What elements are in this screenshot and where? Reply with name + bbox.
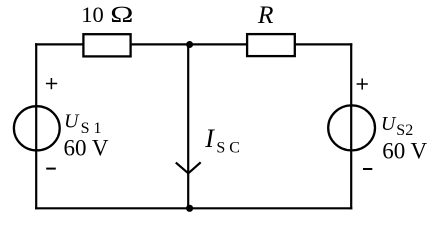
polarity plus right	[357, 83, 368, 85]
svg-text:10: 10	[81, 2, 104, 27]
wire top	[35, 43, 352, 45]
wire bottom	[35, 207, 352, 209]
resistor R body	[247, 34, 295, 56]
voltage source US1 circle	[14, 106, 60, 150]
polarity minus left	[46, 168, 56, 170]
svg-text:60 V: 60 V	[382, 139, 427, 164]
node junction dot bottom	[186, 205, 193, 212]
resistor 10 Ohm body	[83, 34, 130, 56]
current arrow head ISC	[176, 162, 201, 173]
svg-text:U: U	[64, 111, 80, 133]
polarity minus right	[363, 168, 372, 170]
svg-text:60 V: 60 V	[64, 136, 109, 161]
svg-text:S2: S2	[396, 122, 413, 139]
svg-text:S 1: S 1	[81, 120, 102, 137]
voltage source US2 circle	[328, 105, 375, 150]
node junction dot top	[186, 41, 193, 48]
wire middle branch	[187, 44, 189, 208]
svg-text:R: R	[257, 0, 274, 29]
svg-text:U: U	[381, 113, 397, 135]
svg-text:S C: S C	[216, 139, 240, 156]
svg-text:Ω: Ω	[110, 2, 134, 27]
wire left	[35, 43, 37, 209]
polarity plus left	[46, 83, 57, 85]
wire right	[350, 43, 352, 209]
svg-text:I: I	[204, 124, 215, 153]
